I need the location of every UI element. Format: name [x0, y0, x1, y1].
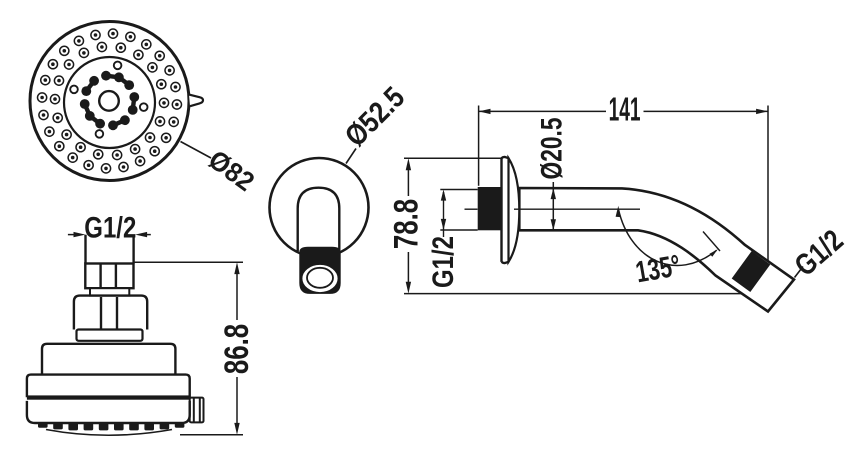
- wall thread block: [478, 187, 502, 230]
- 141 dimension: [479, 106, 768, 263]
- diameter 20.5 dimension: [552, 182, 554, 230]
- centre hole: [99, 91, 119, 111]
- head upper plate: [42, 344, 175, 375]
- spray face nubs: [38, 423, 184, 430]
- outer nozzle ring: [38, 29, 182, 173]
- hex nut section: [85, 264, 133, 289]
- svg-text:141: 141: [609, 91, 641, 128]
- svg-text:86.8: 86.8: [219, 324, 256, 374]
- flange tube capsule: [298, 188, 340, 252]
- neck ring: [90, 288, 129, 295]
- arm thread band: [732, 251, 771, 292]
- centre plate circle: [64, 57, 155, 148]
- massage nozzle chain: [80, 71, 139, 130]
- wall flange side view: [509, 158, 520, 262]
- head lower band: [27, 401, 190, 423]
- thread pipe: [86, 235, 134, 264]
- tube end inner ellipse: [307, 268, 333, 288]
- svg-text:Ø52.5: Ø52.5: [338, 80, 411, 153]
- inner nozzle ring: [50, 42, 168, 159]
- G1/2 dimension arrows: [68, 232, 151, 237]
- ball joint collar: [74, 296, 147, 330]
- black stripe: [27, 395, 190, 399]
- tube black band: [299, 247, 340, 294]
- svg-text:Ø82: Ø82: [203, 144, 260, 197]
- svg-text:135°: 135°: [633, 248, 683, 290]
- svg-text:G1/2: G1/2: [84, 210, 136, 244]
- centreline slanted: [703, 232, 720, 252]
- spray face bottom arc: [46, 430, 172, 436]
- tube end outer ellipse: [302, 264, 339, 293]
- 135 degree arc: [619, 209, 717, 265]
- four small pilot holes: [70, 62, 147, 138]
- leader line for diameter 82: [181, 142, 212, 159]
- side regulator tab: [190, 398, 204, 423]
- 86.8 dimension: [134, 262, 243, 435]
- shower head top view outer rim: [30, 22, 189, 181]
- svg-text:G1/2: G1/2: [425, 236, 459, 288]
- 78.8 dimension: [404, 158, 744, 293]
- head rim band: [27, 375, 190, 398]
- collar base ring: [77, 330, 143, 341]
- leader line for diameter 52.5: [346, 149, 356, 164]
- wall flange disc: [270, 158, 369, 257]
- label G1/2 arm end: [795, 267, 804, 278]
- side tab on rim: [189, 95, 203, 107]
- svg-text:78.8: 78.8: [388, 199, 425, 249]
- centreline horizontal: [465, 208, 478, 210]
- G1/2 wall thread dimension: [440, 190, 477, 238]
- svg-text:Ø20.5: Ø20.5: [535, 117, 569, 179]
- arm tube outline: [519, 188, 794, 312]
